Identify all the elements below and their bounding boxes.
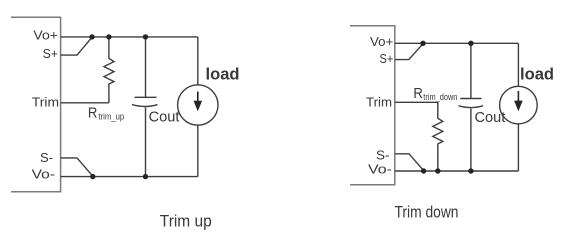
svg-text:R: R: [88, 104, 98, 121]
svg-text:load: load: [206, 64, 240, 83]
svg-text:Vo+: Vo+: [33, 28, 58, 43]
wire Vo+ rail: [61, 36, 198, 38]
wire Vo- rail (right): [395, 170, 519, 172]
svg-text:S-: S-: [40, 150, 53, 165]
arrow inside load (right): [517, 91, 519, 103]
converter module box (open left): [350, 26, 395, 185]
wire S- stub: [61, 158, 93, 176]
wire Trim stub + resistor Rtrim_down: [395, 102, 443, 171]
svg-text:S+: S+: [380, 51, 394, 66]
capacitor Cout: [145, 37, 147, 97]
junction dots left: [89, 34, 94, 39]
wire Trim stub: [61, 102, 109, 104]
wire Vo- rail: [61, 176, 198, 178]
svg-text:R: R: [413, 85, 423, 102]
arrow inside load (left): [197, 92, 199, 104]
junction dots right: [420, 41, 425, 46]
capacitor Cout (right): [470, 43, 472, 98]
current source load (left): [197, 37, 199, 85]
svg-text:Cout: Cout: [149, 110, 180, 126]
svg-text:load: load: [520, 65, 554, 84]
converter module box (open left): [11, 17, 61, 191]
svg-text:Vo-: Vo-: [368, 162, 392, 177]
current source load (right): [517, 43, 519, 86]
svg-text:trim_up: trim_up: [98, 111, 124, 122]
svg-text:Vo-: Vo-: [32, 167, 55, 182]
resistor Rtrim_up: [104, 37, 114, 103]
svg-text:Trim up: Trim up: [160, 212, 212, 231]
svg-text:S+: S+: [43, 46, 58, 61]
wire S- stub (right): [395, 154, 424, 171]
wire S+ stub: [61, 37, 92, 55]
wire S+ stub (right): [395, 44, 423, 60]
svg-text:trim_down: trim_down: [423, 92, 457, 103]
svg-text:Trim: Trim: [366, 95, 392, 110]
wire Vo+ rail (right): [395, 42, 519, 44]
svg-text:Vo+: Vo+: [370, 34, 393, 49]
svg-text:Trim: Trim: [32, 95, 59, 110]
svg-text:Trim down: Trim down: [395, 202, 459, 221]
svg-text:S-: S-: [376, 148, 390, 163]
